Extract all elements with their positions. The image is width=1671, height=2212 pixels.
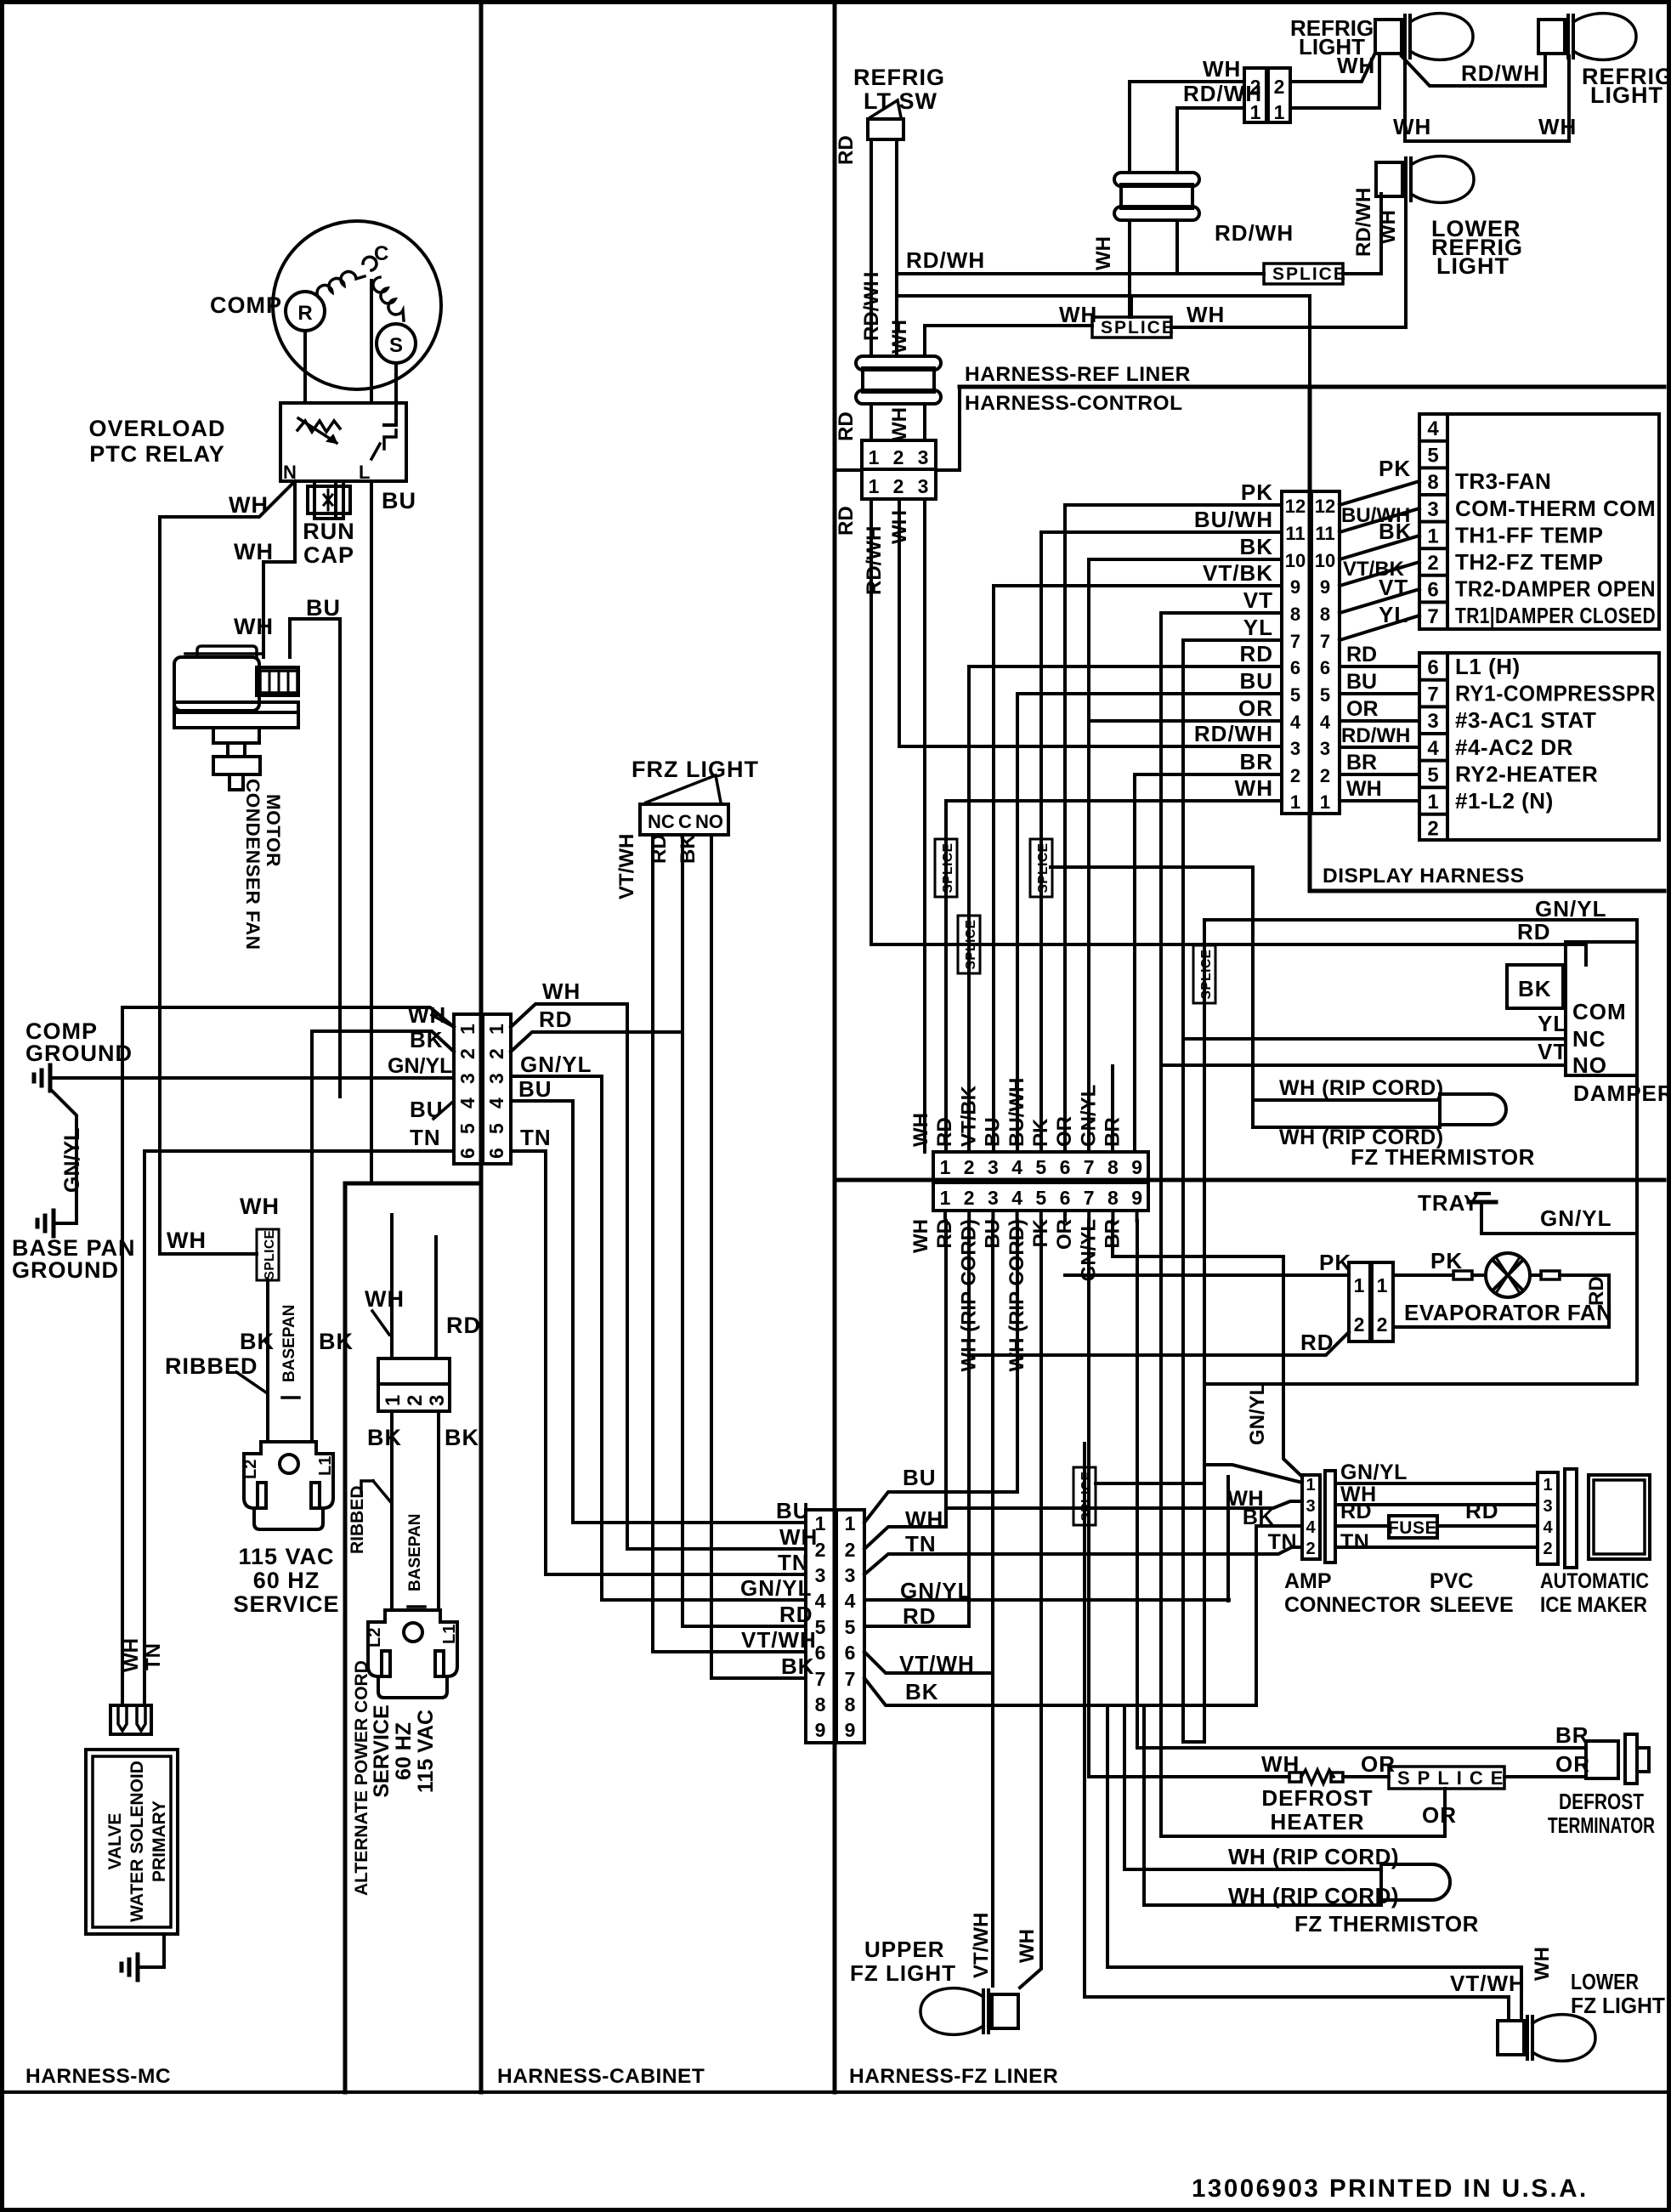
alternate power cord enclosure [345, 1183, 481, 2092]
svg-text:CONNECTOR: CONNECTOR [1284, 1593, 1421, 1617]
svg-text:3: 3 [485, 1073, 507, 1084]
svg-text:TN: TN [410, 1125, 441, 1150]
svg-text:SPLICE: SPLICE [1079, 1472, 1094, 1522]
wire BK from FRZ NO to 9-pin pin7 [711, 835, 806, 1678]
svg-text:5: 5 [1035, 1187, 1046, 1209]
svg-text:VT/WH: VT/WH [899, 1651, 975, 1676]
RY box row 3 #3-AC1 STAT [1419, 705, 1447, 708]
WH wire from grommet up to splice 2 [925, 326, 1092, 356]
splice 1 RD/WH horizontal [1264, 264, 1343, 284]
svg-text:SPLICE: SPLICE [1397, 1767, 1510, 1789]
svg-text:2: 2 [1354, 1313, 1365, 1336]
wire VT/WH from FRZ NC to 9-pin pin6 [653, 835, 806, 1652]
svg-text:WH: WH [120, 1638, 143, 1672]
svg-text:GN/YL: GN/YL [1246, 1383, 1269, 1445]
defrost heater resistor [1289, 1772, 1301, 1782]
svg-text:3: 3 [1320, 738, 1330, 759]
svg-text:HARNESS-REF LINER: HARNESS-REF LINER [965, 363, 1191, 386]
FUSE box [1389, 1516, 1437, 1538]
12-pin right diagonal BU/WH [1340, 508, 1419, 532]
wire RD stub to 3-2-1 connector [434, 1237, 438, 1358]
svg-text:13006903 PRINTED IN U.S.A.: 13006903 PRINTED IN U.S.A. [1192, 2175, 1589, 2203]
grommet harness-ref liner [856, 356, 941, 370]
wire WH below connector down to 9-pin top [923, 499, 926, 1152]
section divider HARNESS-CABINET / HARNESS-FZ LINER [833, 3, 837, 2092]
svg-text:1: 1 [1250, 101, 1261, 123]
svg-text:WATER SOLENOID: WATER SOLENOID [127, 1761, 147, 1922]
svg-text:DISPLAY HARNESS: DISPLAY HARNESS [1323, 865, 1525, 888]
svg-text:TR3-FAN: TR3-FAN [1455, 468, 1551, 494]
svg-text:4: 4 [1011, 1187, 1022, 1209]
svg-text:4: 4 [456, 1097, 479, 1109]
svg-text:L2: L2 [241, 1460, 260, 1479]
condenser fan motor terminal block [260, 671, 297, 693]
upper FZ light bulb [992, 1994, 1018, 2028]
control board TR box [1419, 414, 1659, 629]
9-pin top connector row 1 [933, 1152, 1148, 1180]
svg-text:VT/BK: VT/BK [957, 1085, 980, 1147]
RD/WH wire branch down into grommet [895, 274, 898, 356]
svg-text:TN: TN [142, 1643, 165, 1670]
svg-text:WH (RIP CORD): WH (RIP CORD) [1228, 1883, 1399, 1909]
svg-text:12: 12 [1285, 496, 1306, 517]
wire GN/YL comp ground to 6-pin connector pin 3 [50, 1076, 454, 1080]
tray ground symbol [1476, 1192, 1489, 1195]
svg-text:ALTERNATE POWER CORD: ALTERNATE POWER CORD [352, 1660, 371, 1896]
svg-text:OR: OR [1422, 1802, 1457, 1828]
svg-text:WH: WH [888, 320, 911, 354]
wire from 1-2-3 connector right to harness-ref corner [936, 387, 960, 470]
svg-text:8: 8 [1320, 604, 1330, 625]
svg-text:10: 10 [1315, 550, 1335, 571]
svg-text:BR: BR [1102, 1117, 1124, 1147]
svg-text:BU: BU [903, 1465, 937, 1490]
svg-text:#4-AC2 DR: #4-AC2 DR [1455, 734, 1573, 760]
wire WH rip cord from splice3 [1051, 867, 1253, 1127]
svg-text:PVC: PVC [1430, 1569, 1473, 1593]
115 VAC service plug 1 [244, 1442, 333, 1529]
wire GN/YL bundle branch to AMP [1113, 1221, 1302, 1477]
svg-text:CAP: CAP [303, 542, 354, 568]
svg-text:8: 8 [1290, 604, 1300, 625]
bundle wire below 9-pin top col 1 [943, 1211, 947, 1221]
svg-text:60 HZ: 60 HZ [253, 1568, 320, 1593]
svg-text:SPLICE: SPLICE [1101, 318, 1175, 337]
wire WH stub to 3-2-1 connector [390, 1215, 394, 1358]
svg-text:4: 4 [1290, 712, 1301, 733]
svg-text:YL: YL [1379, 602, 1408, 627]
svg-text:BU: BU [1239, 668, 1273, 694]
compressor ground symbol [48, 1065, 53, 1091]
wire BK from 6-pin pin2 down to 115VAC plug L1 [312, 1031, 454, 1442]
wire RD fuse to ice maker [1437, 1524, 1538, 1528]
svg-text:RD/WH: RD/WH [1461, 60, 1540, 86]
evaporator fan motor symbol [1486, 1253, 1530, 1297]
wire C from compressor to relay [370, 281, 373, 403]
splice on WH wire [935, 839, 957, 897]
svg-text:2: 2 [893, 475, 904, 497]
svg-text:FRZ LIGHT: FRZ LIGHT [632, 757, 759, 782]
svg-text:#1-L2 (N): #1-L2 (N) [1455, 788, 1554, 814]
svg-text:2: 2 [893, 446, 904, 468]
wire VT/WH 9-pin pin6 to upper FZ light [864, 1652, 993, 1673]
svg-text:WH: WH [1538, 114, 1577, 139]
WH wire across top [899, 294, 1310, 298]
wire RD from light switch to grommet [869, 139, 873, 356]
1-2-3 connector row 2 [862, 469, 936, 499]
svg-text:9: 9 [1290, 576, 1300, 598]
wire GN/YL to base pan ground [50, 1089, 76, 1223]
svg-text:BK: BK [240, 1329, 275, 1354]
12-pin right diagonal YL [1340, 615, 1419, 640]
svg-text:2: 2 [1274, 76, 1285, 98]
TR box row 3 COM-THERM COM [1419, 493, 1447, 496]
harness-ref liner boundary line [960, 385, 1664, 389]
fz thermistor 1 wires [1253, 1098, 1440, 1102]
svg-text:BASEPAN: BASEPAN [406, 1514, 424, 1592]
svg-text:BU: BU [1346, 670, 1377, 694]
svg-text:4: 4 [815, 1590, 826, 1612]
svg-text:1: 1 [869, 475, 880, 497]
ice maker connector column [1538, 1472, 1558, 1564]
svg-text:3: 3 [845, 1564, 856, 1586]
fan inline resistor 1 [1453, 1271, 1472, 1279]
water valve ground symbol [136, 1954, 140, 1980]
svg-text:DAMPER: DAMPER [1573, 1080, 1671, 1106]
svg-text:WH: WH [1377, 210, 1400, 244]
svg-text:2: 2 [1377, 1313, 1388, 1336]
wire WH from relay N diagonal to left run [160, 481, 295, 517]
wire WH splice 2 to lower refrig light [1171, 194, 1406, 327]
svg-text:BASEPAN: BASEPAN [280, 1305, 298, 1383]
svg-text:GN/YL: GN/YL [388, 1054, 452, 1078]
svg-text:WH (RIP CORD): WH (RIP CORD) [1279, 1076, 1444, 1100]
lower FZ light bulb [1498, 2021, 1524, 2055]
svg-text:PK: PK [1241, 479, 1273, 505]
svg-text:TERMINATOR: TERMINATOR [1548, 1812, 1655, 1838]
svg-text:FZ THERMISTOR: FZ THERMISTOR [1351, 1144, 1535, 1170]
12-pin control connector right column [1311, 491, 1340, 814]
compressor start winding coil [373, 277, 404, 320]
svg-text:WH: WH [888, 407, 911, 441]
wire TN 6-pin pin6 right to 9-pin pin3 [511, 1151, 806, 1574]
RY box row 4 #4-AC2 DR [1419, 732, 1447, 735]
wire RD fan loop [1393, 1275, 1609, 1327]
svg-text:SPLICE: SPLICE [941, 843, 955, 893]
svg-text:1: 1 [1320, 791, 1330, 813]
svg-text:5: 5 [1320, 684, 1330, 706]
svg-text:6: 6 [845, 1642, 856, 1664]
svg-text:FZ LIGHT: FZ LIGHT [1571, 1993, 1665, 2018]
wire WH/BK splice to 115VAC plug L2 [266, 1280, 269, 1442]
svg-text:VT/WH: VT/WH [741, 1627, 817, 1653]
svg-text:GN/YL: GN/YL [60, 1128, 84, 1193]
svg-text:OR: OR [1361, 1751, 1396, 1777]
svg-text:7: 7 [1290, 631, 1300, 652]
svg-text:TN: TN [520, 1125, 552, 1150]
wire WH 6-pin pin1 right to 9-pin pin2 [511, 1004, 806, 1549]
svg-text:2: 2 [456, 1048, 479, 1059]
svg-text:3: 3 [426, 1395, 449, 1406]
svg-text:BU/WH: BU/WH [1194, 507, 1273, 532]
svg-text:GN/YL: GN/YL [900, 1578, 971, 1603]
svg-text:SPLICE: SPLICE [1272, 264, 1347, 284]
svg-text:WH: WH [1531, 1947, 1554, 1981]
svg-text:YL: YL [1243, 615, 1273, 640]
svg-text:1: 1 [940, 1156, 951, 1178]
12-pin left wire VT row8 to damper NO [1161, 613, 1282, 1836]
bundle wire below 9-pin top col 9 [1136, 1211, 1139, 1221]
svg-text:BK: BK [905, 1679, 939, 1704]
svg-text:8: 8 [845, 1693, 856, 1716]
svg-text:VT/BK: VT/BK [1203, 560, 1273, 586]
compressor S terminal [377, 324, 416, 363]
svg-text:S: S [389, 334, 403, 357]
svg-text:GROUND: GROUND [12, 1257, 119, 1283]
svg-text:WH: WH [408, 1002, 446, 1028]
svg-text:3: 3 [1306, 1497, 1315, 1516]
ice maker box [1589, 1475, 1650, 1559]
svg-text:8: 8 [1107, 1156, 1119, 1178]
wire GN/YL loop top [1204, 920, 1637, 1384]
svg-text:BU: BU [776, 1498, 810, 1523]
wire BR bundle to defrost terminator [1136, 1221, 1139, 1748]
svg-text:RD: RD [1346, 643, 1377, 666]
svg-text:LIGHT: LIGHT [1436, 253, 1510, 279]
svg-text:2: 2 [1320, 765, 1330, 786]
bundle wire below 9-pin top col 8 [1111, 1211, 1114, 1221]
svg-text:6: 6 [485, 1148, 507, 1159]
svg-text:4: 4 [1306, 1518, 1316, 1537]
overload PTC relay box U-relay [280, 403, 406, 481]
evaporator fan connector left column [1349, 1262, 1370, 1341]
TR box row 2 TH2-FZ TEMP [1419, 547, 1447, 550]
svg-text:WH: WH [888, 510, 911, 544]
svg-text:5: 5 [485, 1123, 507, 1134]
svg-text:NC: NC [648, 811, 675, 832]
svg-text:BR: BR [1346, 751, 1377, 774]
svg-text:GN/YL: GN/YL [1340, 1460, 1408, 1484]
svg-text:3: 3 [815, 1564, 826, 1586]
svg-text:COM: COM [1572, 999, 1627, 1024]
svg-text:6: 6 [1060, 1156, 1071, 1178]
svg-text:RD: RD [1517, 919, 1551, 944]
12-pin right diagonal VT [1340, 589, 1419, 613]
svg-text:SLEEVE: SLEEVE [1430, 1593, 1514, 1617]
svg-text:REFRIG: REFRIG [853, 65, 945, 90]
9-pin top connector row 2 [933, 1183, 1148, 1211]
svg-text:60 HZ: 60 HZ [392, 1722, 416, 1780]
svg-text:WH: WH [542, 978, 581, 1004]
svg-text:BU: BU [982, 1117, 1005, 1147]
svg-text:COM-THERM COM: COM-THERM COM [1455, 496, 1656, 521]
svg-text:4: 4 [1320, 712, 1331, 733]
wire PK to fan motor [1393, 1273, 1453, 1277]
bundle wire below 9-pin top col 2 [967, 1211, 971, 1221]
svg-text:RD/WH: RD/WH [863, 526, 886, 595]
wire BU from relay L down [370, 481, 373, 1183]
TR box row 7 TR1|DAMPER CLOSED [1419, 600, 1447, 604]
6-pin connector MC-cabinet left column [454, 1014, 482, 1164]
svg-text:3: 3 [988, 1156, 999, 1178]
svg-text:COMP: COMP [210, 292, 282, 318]
svg-text:FZ THERMISTOR: FZ THERMISTOR [1294, 1911, 1479, 1937]
wire WH 9-pin pin2 to AMP pin3 [864, 1527, 946, 1549]
wire TN AMP to ice maker [1335, 1546, 1538, 1549]
svg-text:RD: RD [1340, 1500, 1372, 1523]
svg-text:VALVE: VALVE [105, 1813, 125, 1870]
svg-text:3: 3 [1290, 738, 1300, 759]
wire RD from FRZ C down [683, 835, 806, 1626]
relay PTC contact symbol [384, 430, 396, 449]
base pan ground symbol [52, 1211, 56, 1236]
2-2 1-1 connector refrig lights [1244, 68, 1266, 122]
svg-text:1: 1 [382, 1395, 405, 1406]
wire RD grommet to 1-2-3 connector [869, 404, 873, 440]
svg-text:4: 4 [1543, 1518, 1553, 1537]
wire RD/WH from light switch C to splice 1 [897, 139, 1264, 274]
svg-text:HARNESS-CONTROL: HARNESS-CONTROL [965, 392, 1183, 415]
svg-text:RD/WH: RD/WH [906, 247, 985, 273]
svg-text:8: 8 [1427, 471, 1438, 494]
svg-text:9: 9 [815, 1719, 826, 1741]
svg-text:WH: WH [909, 1113, 932, 1147]
refrig light switch symbol [868, 119, 903, 139]
svg-text:2: 2 [1427, 818, 1438, 841]
bundle wire below 9-pin top col 5 [1039, 1211, 1043, 1221]
alternate cord 3-2-1 connector [378, 1358, 450, 1384]
svg-text:4: 4 [1427, 417, 1439, 440]
svg-text:RY1-COMPRESSPR: RY1-COMPRESSPR [1455, 681, 1656, 706]
svg-text:6: 6 [456, 1148, 479, 1159]
svg-text:RD: RD [1300, 1330, 1334, 1355]
svg-text:5: 5 [1427, 763, 1438, 786]
wire RD long run grommet to damper [871, 944, 1586, 965]
wire GN/YL 6-pin pin3 right to 9-pin pin4 [511, 1076, 806, 1600]
svg-text:4: 4 [845, 1590, 856, 1612]
svg-text:RD/WH: RD/WH [1215, 220, 1294, 246]
svg-text:7: 7 [845, 1668, 856, 1690]
svg-text:BU: BU [518, 1076, 552, 1102]
svg-text:9: 9 [1131, 1156, 1142, 1178]
splice on BU/WH wire [1030, 839, 1052, 897]
wire GN/YL tray ground [1481, 1202, 1637, 1234]
svg-text:7: 7 [1320, 631, 1330, 652]
svg-text:PRIMARY: PRIMARY [150, 1801, 169, 1882]
12-pin left wire RD/WH row3 [899, 745, 1282, 748]
svg-text:RD: RD [933, 1117, 956, 1147]
wire VT/WH to lower FZ light [1085, 1997, 1509, 2021]
svg-text:L1: L1 [316, 1456, 335, 1476]
svg-text:NC: NC [1572, 1026, 1606, 1052]
svg-text:1: 1 [1290, 791, 1300, 813]
svg-text:3: 3 [918, 475, 929, 497]
svg-text:3: 3 [456, 1073, 479, 1084]
wire WH AMP to ice maker [1335, 1503, 1538, 1506]
svg-text:GROUND: GROUND [25, 1041, 133, 1066]
wire RD below connector to long RD run [869, 499, 873, 944]
control board RY box [1419, 653, 1659, 840]
svg-text:HARNESS-MC: HARNESS-MC [25, 2065, 171, 2088]
svg-text:LOWER: LOWER [1571, 1969, 1639, 1994]
wire N internal stubs [293, 481, 297, 519]
svg-text:HARNESS-FZ LINER: HARNESS-FZ LINER [849, 2065, 1058, 2088]
svg-text:9: 9 [1320, 576, 1330, 598]
svg-text:RD: RD [1239, 641, 1273, 666]
svg-text:3: 3 [988, 1187, 999, 1209]
svg-text:2: 2 [964, 1187, 975, 1209]
bundle wire below 9-pin top col 4 [1016, 1211, 1019, 1221]
svg-text:BK: BK [1379, 519, 1413, 544]
svg-text:BU: BU [306, 595, 341, 621]
svg-text:7: 7 [815, 1668, 826, 1690]
AMP connector column 1 [1302, 1475, 1320, 1559]
svg-text:1: 1 [1274, 101, 1285, 123]
svg-text:TR2-DAMPER OPEN: TR2-DAMPER OPEN [1455, 576, 1656, 602]
svg-text:RD: RD [648, 834, 671, 864]
wire PK bundle to evap fan connector [1065, 1273, 1349, 1277]
svg-text:TN: TN [1268, 1530, 1297, 1554]
svg-text:WH: WH [167, 1228, 207, 1253]
svg-text:115 VAC: 115 VAC [414, 1710, 438, 1793]
wire WH relay N 2nd down-jog to condenser fan [263, 519, 295, 657]
wire WH grommet1 top to 2-2 connector [1130, 82, 1244, 173]
svg-text:NO: NO [695, 811, 723, 832]
12-pin right wire RD/WH row3 [1340, 746, 1419, 749]
svg-text:TH2-FZ TEMP: TH2-FZ TEMP [1455, 549, 1604, 575]
svg-text:1: 1 [456, 1024, 479, 1035]
svg-text:RY2-HEATER: RY2-HEATER [1455, 761, 1598, 786]
svg-text:6: 6 [1427, 579, 1438, 602]
svg-text:C: C [678, 811, 692, 832]
evaporator fan connector right column [1372, 1262, 1393, 1341]
defrost terminator symbol [1586, 1741, 1618, 1778]
svg-text:BK: BK [410, 1027, 444, 1052]
svg-text:RUN: RUN [303, 519, 355, 544]
primary water solenoid valve box [86, 1750, 178, 1934]
wire from splice right [1096, 1482, 1204, 1485]
wire bundle vertical OR [1087, 559, 1090, 1152]
12-pin right wire BU row5 [1340, 692, 1419, 695]
wire WH 2-2 connector to refrig light 1 [1290, 53, 1375, 82]
svg-text:RD/WH: RD/WH [1352, 188, 1375, 257]
115 VAC service plug 2 [368, 1610, 457, 1698]
wire stub divider to 1-2-3 connector [835, 468, 862, 472]
svg-text:BK: BK [1518, 976, 1552, 1001]
svg-text:6: 6 [1427, 656, 1438, 679]
12-pin right wire WH row1 [1340, 799, 1419, 803]
svg-text:TN: TN [1340, 1530, 1369, 1554]
condenser fan motor lower body [174, 702, 298, 712]
wire bundle vertical BU/WH [1039, 532, 1043, 1152]
ice maker connector bar [1565, 1469, 1577, 1568]
svg-text:WH: WH [1092, 236, 1115, 270]
wire bundle vertical WH [944, 801, 948, 1152]
drawing area bottom line [2, 2090, 1669, 2094]
wire GN/YL AMP to ice maker [1335, 1482, 1538, 1485]
svg-text:5: 5 [1035, 1156, 1046, 1178]
12-pin left wire BU row5 [1017, 692, 1282, 695]
bundle wire below 9-pin top col 6 [1063, 1211, 1067, 1221]
svg-text:FUSE: FUSE [1388, 1518, 1437, 1538]
svg-text:R: R [297, 302, 312, 325]
svg-text:4: 4 [1011, 1156, 1022, 1178]
svg-text:2: 2 [485, 1048, 507, 1059]
svg-text:PTC RELAY: PTC RELAY [89, 441, 225, 467]
svg-text:GN/YL: GN/YL [1540, 1205, 1612, 1231]
svg-text:TH1-FF TEMP: TH1-FF TEMP [1455, 522, 1604, 547]
svg-text:8: 8 [1107, 1187, 1119, 1209]
